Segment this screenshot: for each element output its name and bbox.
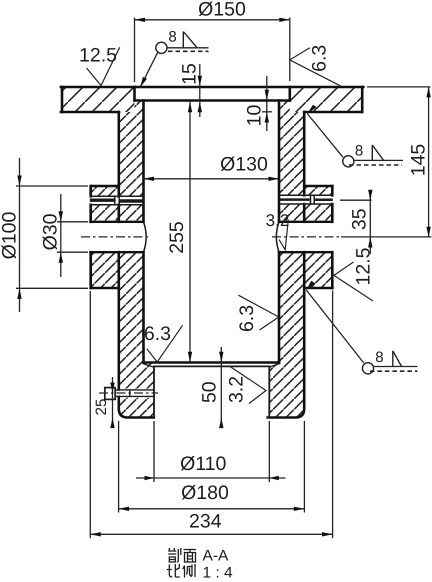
svg-text:Ø130: Ø130: [220, 153, 268, 175]
svg-text:Ø100: Ø100: [0, 211, 21, 259]
svg-text:A-A: A-A: [203, 548, 230, 565]
svg-text:12.5: 12.5: [353, 247, 375, 285]
svg-text:8: 8: [355, 142, 363, 159]
svg-text:Ø110: Ø110: [180, 453, 226, 475]
svg-text:25: 25: [93, 399, 110, 416]
svg-text:Ø180: Ø180: [181, 482, 229, 504]
svg-text:255: 255: [166, 221, 188, 254]
svg-text:35: 35: [349, 208, 371, 230]
svg-text:12.5: 12.5: [79, 44, 117, 66]
svg-text:234: 234: [189, 511, 222, 533]
svg-text:15: 15: [179, 63, 201, 85]
svg-text:3.2: 3.2: [266, 211, 290, 230]
svg-text:3.2: 3.2: [226, 376, 248, 403]
svg-text:1 : 4: 1 : 4: [203, 564, 234, 581]
svg-text:145: 145: [407, 144, 429, 177]
svg-text:Ø30: Ø30: [40, 213, 62, 250]
svg-text:50: 50: [199, 381, 221, 403]
svg-text:6.3: 6.3: [308, 45, 330, 72]
svg-text:Ø150: Ø150: [198, 0, 246, 21]
svg-text:6.3: 6.3: [236, 305, 258, 332]
svg-text:8: 8: [168, 29, 176, 46]
svg-text:6.3: 6.3: [144, 323, 171, 345]
svg-text:8: 8: [375, 349, 383, 366]
svg-text:10: 10: [243, 105, 265, 127]
